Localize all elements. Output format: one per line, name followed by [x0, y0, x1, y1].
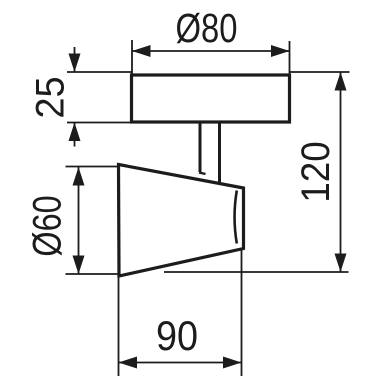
mounting box (top rectangle, side view)	[132, 75, 290, 122]
lamp rim inner arc	[235, 191, 237, 244]
dimension Ø60 top extension line	[66, 166, 118, 168]
svg-text:25: 25	[29, 76, 73, 118]
dimension Ø80 left arrowhead	[132, 45, 151, 57]
dimension Ø60 top arrowhead	[73, 167, 85, 186]
dimension Ø80 line	[132, 50, 290, 52]
dimension 120 line	[340, 72, 342, 272]
svg-text:Ø80: Ø80	[176, 4, 238, 50]
dimension 25 line lower segment	[74, 123, 76, 147]
stem right line	[218, 123, 221, 185]
top reference line left segment (25 dim)	[67, 71, 132, 73]
dimension Ø80 extension line right	[289, 41, 291, 74]
lamp cone outline	[119, 165, 244, 277]
top reference line right segment (120 dim)	[290, 71, 350, 73]
stem bottom hook	[199, 173, 206, 175]
dimension 120 bottom arrowhead	[335, 254, 347, 273]
dimension 90 left arrowhead	[119, 357, 138, 369]
dimension 25 bottom extension line	[67, 122, 132, 124]
svg-text:120: 120	[294, 141, 339, 202]
dimension 25 bottom arrowhead	[69, 123, 81, 142]
dimension Ø60 bottom extension line	[66, 273, 118, 275]
bottom reference line (120 dim)	[164, 271, 349, 273]
stem left line	[199, 123, 202, 172]
dimension 90 right arrowhead	[223, 357, 242, 369]
dimension Ø80 extension line left	[131, 40, 133, 74]
dimension 25 line upper segment	[74, 47, 76, 72]
dimension Ø60 bottom arrowhead	[73, 256, 85, 275]
dimension 90 right extension line	[241, 250, 243, 376]
dimension 90 left extension line	[118, 277, 120, 376]
dimension 90 line	[119, 362, 242, 364]
svg-text:Ø60: Ø60	[24, 195, 69, 256]
svg-text:90: 90	[156, 313, 198, 359]
dimension 120 top arrowhead	[335, 72, 347, 91]
dimension 25 top arrowhead	[69, 54, 81, 73]
dimension Ø80 right arrowhead	[271, 45, 290, 57]
dimension Ø60 line	[78, 167, 80, 274]
